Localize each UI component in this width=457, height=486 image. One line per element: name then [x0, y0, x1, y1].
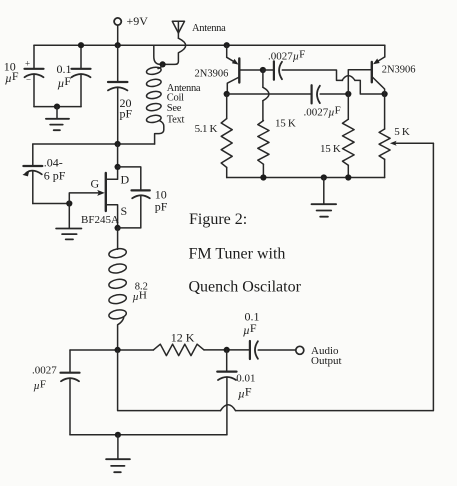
capacitor C6a .0027uF top [263, 69, 273, 71]
wire lower node rail [70, 349, 153, 351]
svg-text:See: See [167, 103, 182, 114]
svg-text:15 K: 15 K [275, 118, 296, 130]
node C2 top [78, 42, 84, 48]
node Q2 collector column [382, 91, 388, 97]
node bottom ground tap [115, 432, 121, 438]
svg-text:5.1 K: 5.1 K [195, 123, 218, 135]
capacitor C6b .0027uF middle [311, 85, 313, 103]
wire gate lead [69, 193, 98, 204]
wire trimmer to gate node [33, 203, 70, 205]
svg-text:S: S [121, 204, 128, 218]
capacitor C2 0.1uF [80, 45, 82, 68]
svg-text:µF: µF [34, 379, 46, 393]
wire C1-C2 bottom [34, 106, 81, 108]
wire rail to coil top [154, 45, 163, 64]
svg-text:Coil: Coil [167, 93, 184, 104]
svg-text:2N3906: 2N3906 [195, 69, 229, 80]
node gate [66, 200, 72, 206]
node +9V rail junction [115, 42, 121, 48]
wiper arrow 5K [390, 141, 397, 146]
wire quench feedback run [118, 350, 221, 411]
svg-text:−: − [26, 75, 31, 85]
capacitor C5 10pF [118, 167, 141, 190]
wire antenna hop over rail [163, 38, 186, 64]
svg-text:5 K: 5 K [394, 126, 410, 138]
wire Q1 collector row [227, 93, 311, 95]
node tank-drain [115, 141, 121, 147]
svg-text:Antenna: Antenna [192, 23, 226, 34]
svg-text:2N3906: 2N3906 [382, 64, 416, 75]
node quench [115, 347, 121, 353]
node coil top [160, 61, 166, 67]
svg-text:Quench Oscilator: Quench Oscilator [189, 278, 302, 295]
svg-text:pF: pF [155, 200, 168, 214]
transistor Q3 BF245A JFET [105, 173, 107, 211]
inductor L1 antenna coil [158, 64, 163, 68]
node ground stub [321, 174, 327, 180]
transistor Q2 2N3906 right [384, 45, 386, 57]
svg-text:Figure 2:: Figure 2: [189, 211, 247, 228]
wire oscillator ground rail [227, 177, 385, 179]
node R2 bottom [260, 174, 266, 180]
svg-text:Output: Output [311, 355, 342, 367]
wire Q1 base drop with hop [262, 70, 264, 87]
node R3 bottom [345, 174, 351, 180]
svg-text:G: G [91, 177, 100, 191]
node audio tap [224, 347, 230, 353]
svg-text:D: D [121, 172, 130, 186]
wire bottom ground run [70, 434, 227, 436]
wire hop over Q2 base lead [342, 76, 355, 81]
wire +9V top rail [34, 44, 385, 46]
svg-text:Text: Text [167, 114, 185, 125]
antenna symbol [172, 21, 184, 33]
svg-text:+9V: +9V [127, 14, 149, 28]
transistor Q1 2N3906 left [224, 42, 230, 48]
resistor R3 15K [347, 94, 349, 119]
svg-text:.0027µF: .0027µF [268, 48, 305, 62]
svg-text:15 K: 15 K [320, 143, 341, 155]
capacitor C9 0.01uF [226, 350, 228, 371]
node Q2 base column [345, 91, 351, 97]
resistor R2 15K [258, 121, 269, 165]
resistor R4 5K pot [384, 94, 386, 129]
wire hop over C9 lead [221, 405, 236, 411]
resistor R1 5.1K [226, 94, 228, 119]
svg-text:12 K: 12 K [171, 331, 195, 345]
svg-text:µH: µH [133, 290, 147, 304]
wire drain node [117, 144, 119, 167]
ground G1 [56, 107, 58, 119]
terminal audio output [296, 346, 304, 354]
node Q1 collector [224, 91, 230, 97]
svg-text:.0027: .0027 [32, 365, 57, 377]
node source [115, 225, 121, 231]
terminal +9V [114, 18, 121, 25]
capacitor C8 0.1uF output [249, 341, 251, 359]
capacitor C3 20pF [117, 45, 119, 81]
ground G4 [323, 178, 325, 204]
svg-text:µF: µF [58, 74, 72, 90]
node Q1 base [260, 67, 266, 73]
capacitor C4 .04-6pF trimmer [32, 144, 34, 166]
svg-text:6 pF: 6 pF [44, 168, 66, 182]
svg-text:+: + [25, 58, 30, 68]
svg-text:pF: pF [120, 107, 133, 121]
svg-text:µF: µF [5, 69, 19, 85]
node ground tap [54, 104, 60, 110]
capacitor C1 10uF [33, 45, 35, 68]
resistor R5 12K [153, 344, 204, 355]
capacitor C7 .0027uF [69, 350, 71, 372]
ground G2 [68, 204, 70, 228]
svg-text:FM Tuner with: FM Tuner with [189, 246, 286, 263]
wire tank node [33, 143, 155, 145]
inductor L2 8.2uH [117, 228, 119, 249]
svg-text:BF245A: BF245A [81, 214, 119, 226]
node drain [115, 164, 121, 170]
svg-text:µF: µF [243, 321, 257, 337]
svg-text:0.01: 0.01 [236, 373, 255, 385]
svg-text:.0027µF: .0027µF [304, 105, 341, 119]
svg-text:µF: µF [238, 384, 252, 400]
ground G3 [117, 435, 119, 459]
